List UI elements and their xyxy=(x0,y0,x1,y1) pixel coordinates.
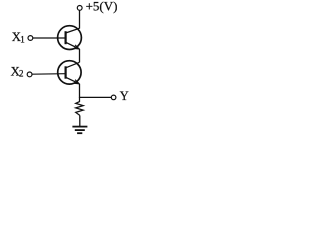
wire X1 to Q1 base xyxy=(33,37,65,39)
wire Q2 emitter down to output node xyxy=(79,84,81,98)
resistor R xyxy=(76,97,84,115)
svg-text:+5(V): +5(V) xyxy=(86,0,118,14)
transistor Q2 xyxy=(58,61,81,84)
terminal X1 xyxy=(28,36,33,41)
ground xyxy=(72,127,87,134)
svg-text:Y: Y xyxy=(120,89,129,103)
svg-text:1: 1 xyxy=(20,35,25,45)
wire +5V terminal to Q1 collector xyxy=(79,10,81,28)
wire X2 to Q2 base xyxy=(32,73,65,76)
terminal Y xyxy=(111,95,116,100)
power terminal +5V xyxy=(77,6,82,11)
wire node to Y terminal xyxy=(80,96,112,98)
wire Q1 emitter to Q2 collector xyxy=(79,49,81,62)
wire resistor to ground xyxy=(79,115,81,126)
terminal X2 xyxy=(27,72,32,77)
transistor Q1 xyxy=(58,26,82,50)
svg-text:2: 2 xyxy=(19,69,24,79)
